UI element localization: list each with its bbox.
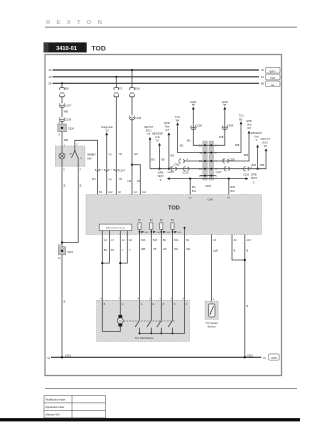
svg-text:TEST: TEST (251, 176, 258, 180)
node Diagnosis '12' (101, 125, 113, 135)
svg-text:BG: BG (151, 157, 155, 161)
wire S201 to ground, B (62, 255, 66, 357)
node on bus 58 (61, 82, 63, 84)
wire S206 to 4WD SW lamp, WB (62, 132, 68, 146)
svg-text:YR: YR (118, 177, 122, 181)
wire TOD A2 to motor, BY (102, 235, 107, 301)
net label BAT+ (266, 67, 281, 73)
footer black bar (0, 418, 300, 421)
svg-text:ES6: ES6 (135, 87, 140, 91)
wire C107 to C209, WB (62, 107, 68, 118)
footer rule (45, 388, 297, 390)
wire ABS/ESP 16 down, BG (158, 146, 165, 170)
svg-text:'73': '73' (147, 132, 151, 136)
svg-text:ECU: ECU (146, 128, 152, 132)
svg-text:Affected VIN: Affected VIN (46, 414, 60, 417)
svg-text:Test: Test (165, 125, 170, 129)
wire ES6 to C108 (131, 97, 133, 116)
bus 58 (48, 82, 264, 86)
svg-text:C305: C305 (229, 157, 236, 161)
svg-text:B: B (64, 184, 66, 188)
node EPB Unit 'A9' (246, 119, 251, 134)
motor pin letters (104, 303, 188, 306)
svg-text:'A4': 'A4' (165, 128, 170, 132)
connector C207 (95, 168, 125, 172)
svg-text:BrB: BrB (260, 163, 265, 167)
svg-text:BG: BG (180, 144, 184, 148)
wire TCU B1 to S301 pin2, BrB (216, 124, 242, 152)
connector C107 (59, 103, 71, 107)
svg-text:RG: RG (174, 247, 178, 251)
position contact C (168, 300, 173, 334)
svg-text:YB: YB (153, 247, 157, 251)
svg-text:WB: WB (64, 110, 68, 114)
svg-text:LW: LW (127, 179, 131, 183)
svg-text:S301: S301 (205, 184, 212, 188)
svg-text:'B1': 'B1' (239, 117, 244, 121)
node ABS/ESP Unit '16' (152, 131, 163, 145)
pull-up 5V channel 4 (171, 219, 182, 234)
title code box 3410-01 (44, 42, 87, 52)
connector C218 (168, 166, 177, 174)
svg-text:B: B (80, 184, 82, 188)
bus 15 (48, 75, 264, 79)
svg-text:S203: S203 (190, 100, 197, 104)
svg-text:SIG: SIG (145, 232, 149, 234)
svg-text:C108: C108 (135, 116, 142, 120)
wire TOD B15 to motor, YB (151, 235, 158, 301)
node CAN Hi drop (228, 178, 236, 195)
svg-text:A12: A12 (108, 191, 113, 194)
wire fuse to C107 (61, 97, 63, 103)
node on bus 15 (115, 76, 117, 78)
svg-text:GB: GB (186, 247, 190, 251)
wire TOD B1 to motor, GB (185, 235, 191, 301)
position contact A (135, 300, 140, 334)
node OD/TOT ECU '34' (260, 137, 270, 151)
svg-text:Y: Y (129, 248, 131, 252)
4WD SW (55, 143, 93, 166)
svg-text:LW: LW (163, 247, 167, 251)
svg-text:5V: 5V (171, 219, 174, 222)
svg-text:SW: SW (87, 156, 92, 160)
svg-text:10A: 10A (114, 91, 119, 95)
node OD/TOT ECU '73' (144, 125, 154, 140)
svg-text:ABS/ESP: ABS/ESP (251, 131, 262, 135)
svg-text:B13: B13 (174, 239, 179, 242)
net label GND (269, 354, 280, 360)
svg-text:Ef6: Ef6 (65, 87, 69, 91)
wire TOD A9 join A10, B (232, 235, 245, 261)
svg-text:TEST: TEST (157, 174, 164, 178)
wire diagnosis to TOD A12, Lg (107, 135, 113, 194)
svg-text:Sensor: Sensor (207, 325, 215, 329)
wire S203 right to S301 pin1 via C208, BrB (216, 110, 225, 146)
svg-text:G301: G301 (247, 353, 254, 357)
motor M (102, 300, 123, 331)
svg-text:BrB: BrB (244, 153, 249, 157)
splice S203 left (190, 100, 197, 110)
node TCU 'B1' (238, 114, 243, 125)
ground G201 (61, 353, 72, 358)
svg-text:Motor Driver Circuit: Motor Driver Circuit (106, 227, 125, 230)
wire TOD B13 to motor, RG (173, 235, 180, 301)
wire bus30 to fuse ES6 (131, 70, 133, 88)
S301 pin dots (204, 144, 212, 176)
wire ABS/ESP 1 down, BrB (252, 148, 259, 170)
svg-text:ILL: ILL (271, 83, 275, 87)
svg-text:BrB: BrB (235, 143, 240, 147)
wire C108 to TOD A4, LW (127, 119, 138, 195)
svg-text:TOD: TOD (92, 46, 106, 53)
wire TOD A7 join A2, BY (101, 235, 115, 265)
footer table (44, 395, 106, 418)
svg-text:'B4': 'B4' (176, 119, 181, 123)
B1 common port (184, 227, 186, 235)
net EPB TEST '2' (left) (157, 171, 170, 182)
svg-text:EPB: EPB (158, 171, 163, 175)
connector C208 left (191, 123, 203, 129)
net EPB TEST '1' (right) (246, 172, 258, 184)
node TCU 'B4' (175, 115, 180, 125)
mechanical link (124, 320, 175, 322)
motor pin numbers (100, 298, 184, 301)
node on bus 30 (131, 69, 133, 71)
wire contact common to pin F (140, 300, 185, 333)
svg-text:B10: B10 (231, 190, 236, 193)
wire OD/TOT 73 down, BG (150, 140, 155, 169)
svg-text:T/C Shift Motor: T/C Shift Motor (135, 336, 154, 340)
splice S203 right (222, 100, 229, 110)
svg-text:M: M (119, 319, 121, 323)
svg-text:LW: LW (134, 152, 138, 156)
svg-text:C306: C306 (173, 163, 180, 167)
svg-text:BG: BG (171, 153, 175, 157)
svg-text:C218: C218 (168, 170, 175, 174)
node EPB Test 'A4' (164, 121, 170, 135)
svg-text:'12': '12' (105, 129, 109, 133)
position contact D (157, 300, 162, 334)
svg-text:WY: WY (92, 177, 96, 181)
S301 pin numbers (199, 145, 217, 178)
connector C305 (222, 157, 235, 163)
wire C209 to S206 (61, 121, 63, 124)
connector C208 right (222, 123, 234, 129)
wire branch to TOD A11, LW (132, 165, 147, 195)
wire bus58 to fuse Ef6 (61, 83, 63, 87)
svg-text:5V: 5V (138, 219, 141, 222)
wire switch to join, B (62, 166, 82, 242)
svg-text:C208: C208 (196, 123, 203, 127)
svg-text:EPB: EPB (246, 119, 251, 123)
svg-text:Diagnosis: Diagnosis (101, 125, 113, 129)
svg-text:'34': '34' (263, 144, 267, 148)
position contact E (147, 300, 152, 334)
svg-text:CAN: CAN (207, 198, 213, 202)
svg-text:B: B (64, 300, 66, 304)
svg-text:EPB: EPB (251, 172, 256, 176)
lamp (4WD indicator) (59, 146, 65, 166)
wire TCU B4 to S301 pin11, BG (178, 126, 200, 153)
pull-up 5V channel 2 (150, 219, 161, 234)
svg-text:5V: 5V (150, 219, 153, 222)
svg-text:OD/TOT: OD/TOT (144, 125, 154, 129)
pull-up 5V channel 3 (160, 219, 171, 234)
node wire join (61, 241, 63, 243)
svg-text:BG: BG (161, 157, 165, 161)
svg-text:ECU: ECU (263, 140, 269, 144)
T/C speed sensor (205, 298, 218, 329)
svg-text:EPB: EPB (164, 121, 169, 125)
svg-text:B15: B15 (153, 239, 158, 242)
wire IGN feed to 4WD switch and TOD B4 (75, 140, 103, 194)
S301 pin rows (200, 145, 216, 175)
svg-text:20A: 20A (130, 91, 135, 95)
svg-text:B: B (246, 248, 248, 252)
svg-text:Unit: Unit (254, 134, 259, 138)
svg-text:A10: A10 (246, 239, 251, 242)
wire lamp to S201, B (62, 166, 66, 247)
svg-text:Unit: Unit (155, 135, 160, 139)
fuse ES6 20A (130, 87, 141, 97)
net label ILL (266, 81, 281, 87)
wire EPB A4 down, BG (168, 136, 175, 170)
svg-text:B: B (234, 248, 236, 252)
svg-text:C216: C216 (243, 172, 250, 176)
svg-text:G: G (122, 303, 124, 306)
net label IGN (266, 74, 281, 80)
ground bus 31 (47, 356, 266, 360)
4WD SW bottom pins (63, 169, 81, 172)
svg-text:C209: C209 (65, 118, 72, 122)
connector C216 (243, 166, 253, 176)
header rule (45, 26, 297, 28)
svg-text:LgB: LgB (213, 248, 218, 252)
connector C217 (215, 167, 229, 175)
svg-text:Y: Y (122, 248, 124, 252)
svg-text:3410-01: 3410-01 (56, 46, 77, 52)
wire F3 to TOD A6, YR (116, 97, 122, 195)
svg-text:S203: S203 (222, 100, 229, 104)
svg-text:GND: GND (271, 357, 277, 360)
wire CAN row (170, 178, 246, 180)
wire row to S301 pin14 (150, 168, 200, 170)
wire TOD A8 join A1, Y (119, 235, 132, 265)
svg-text:B: B (246, 304, 248, 308)
svg-text:SIG: SIG (156, 232, 160, 234)
TOD control unit (86, 195, 262, 235)
svg-text:C208: C208 (227, 123, 234, 127)
joint connector S301 (203, 141, 214, 188)
svg-text:BrB: BrB (231, 185, 236, 189)
svg-text:Unit: Unit (247, 122, 252, 126)
svg-text:A11: A11 (142, 191, 147, 194)
svg-text:YR: YR (118, 152, 122, 156)
wire TOD A1 to motor, Y (120, 235, 125, 301)
connector C108 (129, 116, 141, 120)
svg-text:'16': '16' (156, 138, 160, 142)
svg-text:5V: 5V (160, 219, 163, 222)
wire bus15 to fuse F3 (115, 77, 117, 88)
svg-text:ABS/ESP: ABS/ESP (152, 131, 163, 135)
wire S301 pin5 row to OD/TOT 34, BrB (216, 152, 267, 169)
node CAN Lo drop (189, 178, 197, 195)
connector C219 (182, 167, 189, 175)
splice S201 (58, 244, 74, 260)
switch contact 4H/4L (69, 146, 83, 166)
svg-text:SIG: SIG (166, 232, 170, 234)
splice S206 (58, 121, 75, 136)
svg-text:G201: G201 (65, 353, 72, 357)
node A4/A11 branch (131, 164, 133, 166)
svg-text:C217: C217 (215, 170, 222, 174)
svg-text:BY: BY (104, 248, 108, 252)
svg-text:BrB: BrB (252, 163, 257, 167)
svg-text:C107: C107 (65, 104, 72, 108)
svg-text:IGN: IGN (270, 76, 275, 80)
svg-text:B11: B11 (192, 190, 197, 193)
wire S203 to S301 pin10 via C208, BG (187, 110, 200, 146)
wire TOD B16 to motor, WB (140, 235, 147, 301)
wire TOD A3 to speed sensor, LgB (212, 235, 218, 302)
svg-text:TCU: TCU (238, 114, 243, 118)
svg-text:D: D (163, 303, 165, 306)
svg-text:C207: C207 (119, 168, 126, 172)
wire TOD A10 to ground, B (244, 235, 252, 358)
svg-text:10A: 10A (60, 91, 65, 95)
wire TOD B6 to motor, LW (161, 235, 167, 301)
fuse F3 10A (114, 87, 123, 97)
svg-text:LW: LW (137, 179, 141, 183)
svg-text:Modification basis: Modification basis (46, 399, 67, 402)
pull-up 5V channel 1 (138, 219, 149, 234)
ground G301 (244, 353, 254, 358)
svg-text:C219: C219 (182, 171, 189, 175)
svg-text:Application basis: Application basis (46, 406, 66, 409)
wire S301 pin13 to connector C306 (173, 158, 200, 166)
svg-text:T/C Speed: T/C Speed (205, 321, 218, 325)
motor driver circuit (99, 224, 132, 234)
svg-text:TCU: TCU (175, 115, 180, 119)
svg-text:C: C (174, 303, 176, 306)
wire EPB A9 to S301 pin4 via C305, BrB (216, 134, 250, 161)
svg-text:BY: BY (111, 248, 115, 252)
svg-text:WB: WB (64, 138, 68, 142)
fuse Ef6 10A (60, 87, 70, 97)
svg-text:B16: B16 (141, 239, 146, 242)
svg-text:WB: WB (141, 247, 145, 251)
svg-text:TOD: TOD (168, 205, 180, 211)
diagram frame (45, 55, 282, 376)
svg-text:BG: BG (187, 139, 191, 143)
node ABS/ESP Unit '1' (251, 131, 262, 148)
connector C209 (59, 117, 71, 121)
svg-text:BrB: BrB (219, 135, 224, 139)
svg-text:SIG: SIG (178, 232, 182, 234)
svg-text:S201: S201 (67, 250, 74, 254)
bus 30 (48, 68, 264, 72)
svg-text:BG: BG (192, 185, 196, 189)
svg-text:'A9': 'A9' (247, 126, 252, 130)
svg-text:S206: S206 (68, 127, 75, 131)
svg-text:BAT+: BAT+ (270, 69, 277, 73)
T/C shift motor unit (97, 300, 190, 341)
svg-text:OD/TOT: OD/TOT (260, 137, 270, 141)
